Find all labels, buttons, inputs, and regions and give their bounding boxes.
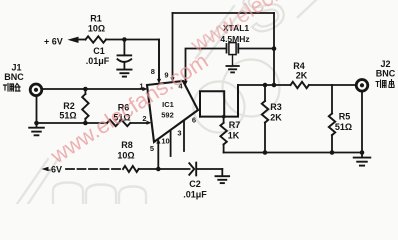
output routing rectangle bbox=[200, 85, 238, 117]
svg-text:1K: 1K bbox=[228, 131, 240, 141]
wire crystal case to ground bbox=[232, 55, 234, 66]
pin 5 wire to -6V rail bbox=[156, 139, 160, 144]
node crystal/feedback junction bbox=[272, 46, 277, 51]
svg-text:51Ω: 51Ω bbox=[335, 122, 352, 132]
capacitor C1 bbox=[123, 40, 125, 56]
wire +6V rail to R1 bbox=[76, 39, 86, 41]
feedback loop top wire bbox=[173, 12, 275, 14]
ground right of C2 bbox=[221, 169, 223, 176]
node pin5 junction bbox=[156, 167, 161, 172]
resistor R8 bbox=[123, 166, 139, 172]
node feedback/output junction bbox=[272, 83, 277, 88]
svg-text:592: 592 bbox=[161, 111, 174, 120]
op-amp IC1 triangle bbox=[147, 81, 198, 142]
wire J1 shield down bbox=[36, 96, 38, 128]
-6V rail bbox=[42, 167, 49, 172]
pin 1 arrow bbox=[142, 87, 147, 91]
wire lower rail ground to R6 bbox=[37, 122, 108, 124]
connector J2 BNC bbox=[356, 80, 368, 92]
svg-text:+ 6V: + 6V bbox=[44, 37, 63, 47]
watermark gray outline letters bbox=[17, 0, 316, 204]
feedback loop right wire bbox=[273, 13, 275, 85]
svg-text:.01μF: .01μF bbox=[183, 190, 207, 200]
node J1 shield junction bbox=[34, 121, 39, 126]
svg-text:R2: R2 bbox=[63, 101, 75, 111]
node R3 top junction bbox=[263, 83, 268, 88]
svg-text:2: 2 bbox=[142, 114, 146, 123]
wire J2 shield down bbox=[361, 91, 363, 152]
svg-text:51Ω: 51Ω bbox=[59, 111, 76, 121]
ground under crystal bbox=[226, 66, 238, 72]
svg-text:5: 5 bbox=[150, 144, 154, 153]
ground right of rail bbox=[361, 153, 363, 158]
connector J1 BNC bbox=[30, 84, 42, 96]
svg-text:6: 6 bbox=[192, 116, 196, 125]
resistor R2 bbox=[84, 89, 86, 94]
resistor R1 bbox=[86, 36, 106, 42]
watermark gray logo circles bbox=[194, 82, 245, 133]
pin 2 arrow bbox=[147, 121, 152, 125]
svg-text:2K: 2K bbox=[296, 71, 308, 81]
svg-text:R4: R4 bbox=[293, 61, 305, 71]
svg-text:J2: J2 bbox=[380, 59, 390, 69]
svg-text:R3: R3 bbox=[270, 102, 282, 112]
node R2 bottom junction bbox=[83, 121, 88, 126]
svg-text:10: 10 bbox=[161, 137, 169, 146]
svg-text:R8: R8 bbox=[121, 140, 133, 150]
svg-text:10Ω: 10Ω bbox=[88, 24, 105, 34]
svg-text:2K: 2K bbox=[270, 113, 282, 123]
node R3 bottom junction bbox=[263, 150, 268, 155]
node J2 shield junction bbox=[360, 150, 365, 155]
svg-text:R7: R7 bbox=[229, 120, 241, 130]
wire J1 to pin1 bbox=[42, 88, 143, 90]
svg-text:J1: J1 bbox=[11, 63, 21, 73]
capacitor C2 bbox=[189, 163, 194, 175]
svg-text:3: 3 bbox=[177, 129, 181, 138]
bottom rail wire bbox=[224, 152, 362, 154]
svg-text:R1: R1 bbox=[90, 14, 102, 24]
ground under C1 bbox=[117, 70, 131, 77]
resistor R7 bbox=[223, 117, 225, 123]
svg-text:10Ω: 10Ω bbox=[117, 151, 134, 161]
wire R1 to pin8 corner bbox=[106, 40, 159, 81]
svg-text:BNC: BNC bbox=[376, 69, 396, 79]
resistor R5 bbox=[331, 85, 333, 114]
ground under J1 bbox=[29, 128, 44, 136]
label output chinese bbox=[376, 80, 394, 88]
node R5 bottom junction bbox=[330, 150, 335, 155]
node R2 top junction bbox=[83, 87, 88, 92]
crystal XTAL1 bbox=[226, 44, 228, 53]
resistor R6 bbox=[107, 120, 130, 126]
resistor R4 bbox=[291, 82, 309, 88]
pin 3 stub bbox=[183, 121, 185, 151]
wire R6 to pin2 bbox=[131, 122, 147, 124]
svg-text:8: 8 bbox=[151, 67, 155, 76]
wire R4 to J2 bbox=[309, 84, 356, 86]
node C1 junction bbox=[122, 37, 127, 42]
svg-text:R5: R5 bbox=[339, 112, 351, 122]
pin 10 stub bbox=[170, 131, 172, 157]
label input chinese bbox=[4, 84, 21, 92]
output wire to R4 bbox=[238, 84, 291, 86]
svg-text:C2: C2 bbox=[189, 179, 201, 189]
svg-text:IC1: IC1 bbox=[162, 100, 174, 109]
arrow +6V bbox=[68, 37, 79, 43]
pin 8 wire bbox=[158, 40, 160, 80]
svg-text:C1: C1 bbox=[93, 46, 105, 56]
resistor R3 bbox=[264, 85, 266, 101]
svg-text:BNC: BNC bbox=[4, 72, 24, 82]
node R7 top junction bbox=[222, 115, 226, 119]
pin 4 wire to crystal bbox=[186, 49, 227, 82]
pin 9 wire / feedback loop left edge bbox=[172, 13, 174, 78]
svg-text:.01μF: .01μF bbox=[86, 56, 110, 66]
